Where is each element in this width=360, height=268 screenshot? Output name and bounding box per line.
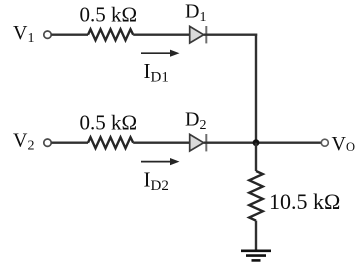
- svg-text:D2: D2: [185, 109, 206, 133]
- svg-text:0.5 kΩ: 0.5 kΩ: [80, 111, 138, 135]
- svg-text:V1: V1: [13, 22, 34, 46]
- current arrow ID1: [141, 50, 180, 57]
- wire V1 to R1: [51, 34, 88, 36]
- terminal V2: [44, 139, 51, 146]
- wire corner down to junction: [255, 34, 257, 144]
- svg-text:ID1: ID1: [144, 59, 169, 85]
- wire D2 to output terminal: [204, 141, 322, 143]
- resistor R1 0.5 kOhm: [88, 29, 133, 40]
- resistor R3 10.5 kOhm (vertical): [249, 171, 263, 221]
- svg-text:0.5 kΩ: 0.5 kΩ: [80, 3, 138, 27]
- junction node dot: [253, 139, 260, 146]
- diode D1: [190, 26, 207, 43]
- current arrow ID2: [141, 158, 180, 165]
- svg-text:V2: V2: [13, 130, 34, 154]
- terminal V1: [44, 31, 51, 38]
- svg-text:VO: VO: [332, 133, 355, 155]
- wire junction down to R3: [255, 143, 257, 171]
- wire R2 to D2: [133, 141, 190, 143]
- svg-text:ID2: ID2: [144, 167, 169, 193]
- wire V2 to R2: [51, 141, 88, 143]
- wire R1 to D1: [133, 34, 190, 36]
- resistor R2 0.5 kOhm: [88, 137, 133, 148]
- svg-text:10.5 kΩ: 10.5 kΩ: [269, 189, 340, 214]
- wire D1 to corner: [204, 34, 258, 36]
- terminal VO: [321, 139, 328, 146]
- wire R3 to ground: [255, 221, 257, 250]
- diode D2: [190, 134, 207, 151]
- ground: [241, 251, 271, 261]
- svg-text:D1: D1: [185, 1, 206, 25]
